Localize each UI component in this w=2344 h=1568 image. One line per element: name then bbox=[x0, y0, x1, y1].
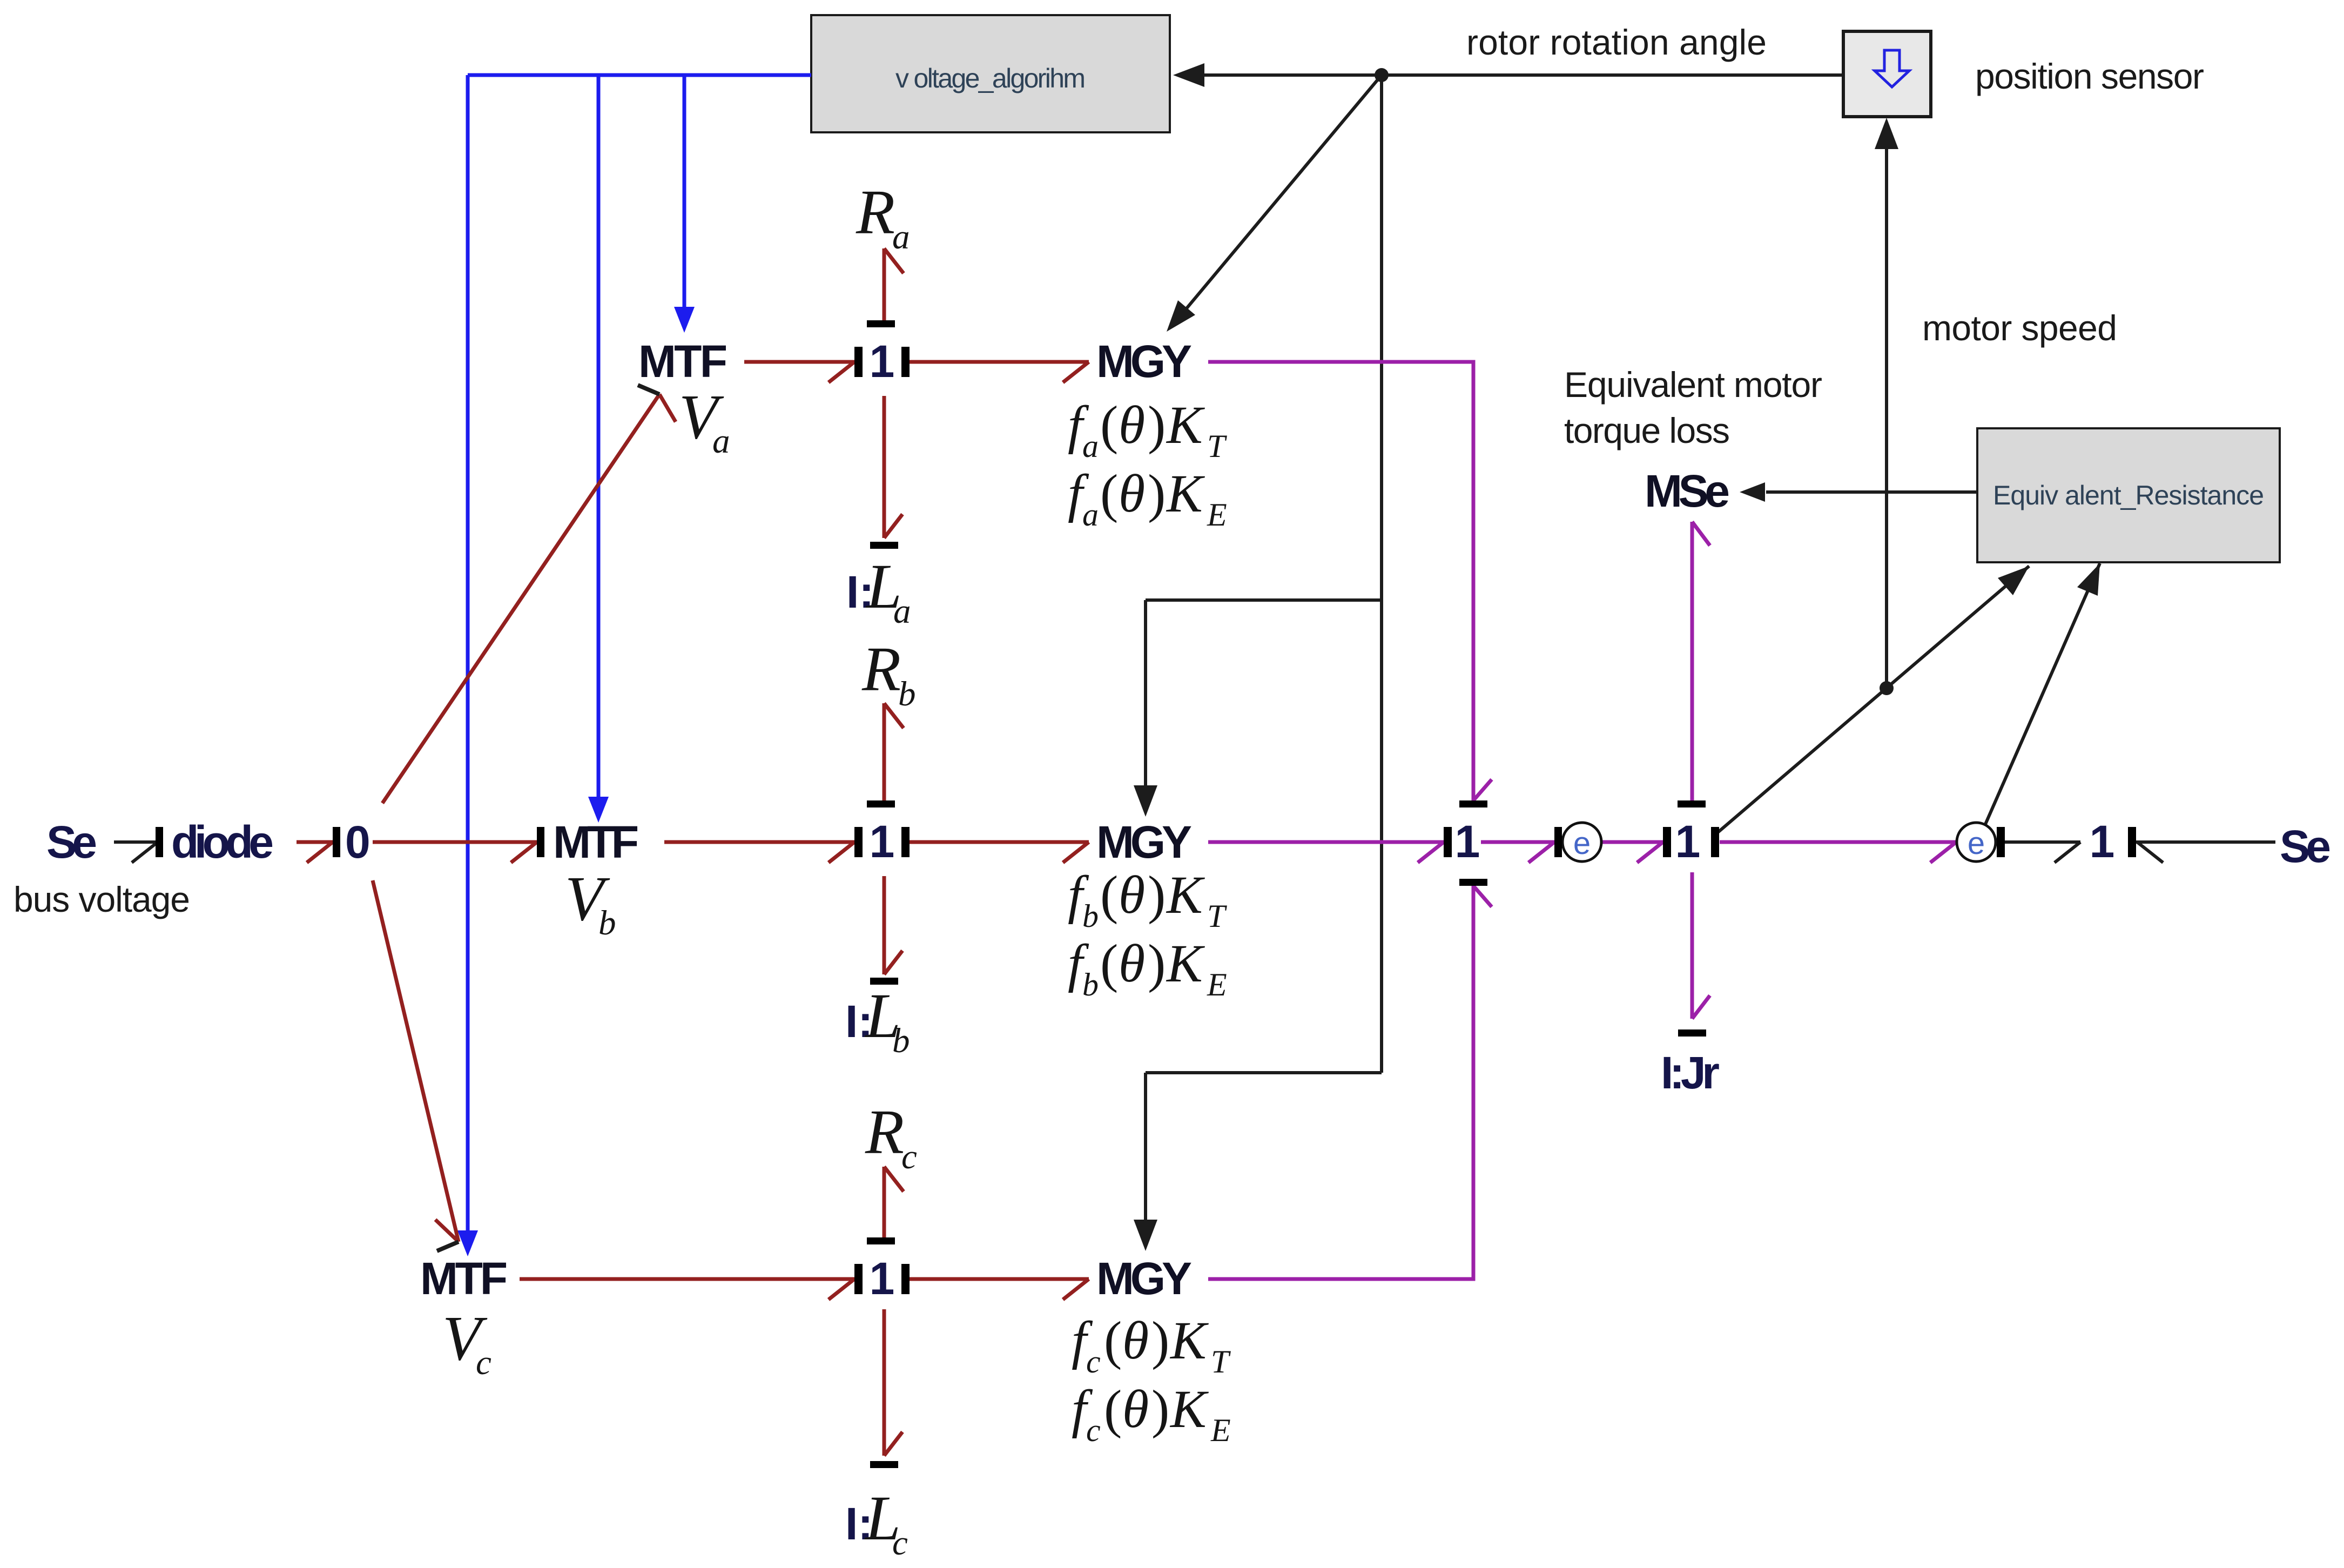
svg-text:MGY: MGY bbox=[1096, 336, 1192, 387]
svg-text:E: E bbox=[1207, 497, 1227, 533]
svg-text:0: 0 bbox=[345, 817, 371, 867]
svg-text:b: b bbox=[598, 904, 616, 943]
svg-text:motor speed: motor speed bbox=[1922, 308, 2117, 348]
svg-text:Equiv alent_Resistance: Equiv alent_Resistance bbox=[1993, 480, 2264, 510]
svg-text:T: T bbox=[1207, 428, 1227, 464]
svg-text:b: b bbox=[1082, 898, 1099, 934]
svg-text:(: ( bbox=[1104, 1379, 1122, 1439]
svg-text:): ) bbox=[1151, 1379, 1169, 1439]
svg-text:θ: θ bbox=[1119, 395, 1145, 455]
svg-text:(: ( bbox=[1100, 395, 1118, 455]
svg-text:E: E bbox=[1207, 967, 1227, 1002]
svg-text:T: T bbox=[1211, 1344, 1231, 1379]
svg-text:1: 1 bbox=[2090, 816, 2115, 867]
svg-text:K: K bbox=[1166, 395, 1205, 455]
svg-text:Se: Se bbox=[2280, 821, 2331, 872]
svg-text:diode: diode bbox=[171, 817, 274, 867]
svg-text:R: R bbox=[861, 634, 901, 704]
svg-text:): ) bbox=[1148, 933, 1166, 993]
svg-text:e: e bbox=[1573, 826, 1591, 861]
svg-text:): ) bbox=[1148, 395, 1166, 455]
svg-text:θ: θ bbox=[1122, 1310, 1149, 1370]
svg-text:MTF: MTF bbox=[420, 1253, 508, 1304]
svg-text:c: c bbox=[892, 1524, 908, 1563]
svg-text:(: ( bbox=[1100, 933, 1118, 993]
svg-text:a: a bbox=[892, 218, 910, 257]
svg-text:K: K bbox=[1169, 1310, 1209, 1370]
svg-text:a: a bbox=[1082, 497, 1099, 533]
svg-text:θ: θ bbox=[1122, 1379, 1149, 1439]
svg-text:MGY: MGY bbox=[1096, 1253, 1192, 1304]
svg-text:θ: θ bbox=[1119, 933, 1145, 993]
svg-text:1: 1 bbox=[870, 816, 895, 867]
svg-text:R: R bbox=[865, 1096, 904, 1167]
svg-text:): ) bbox=[1148, 865, 1166, 925]
svg-text:T: T bbox=[1207, 898, 1227, 934]
svg-text:b: b bbox=[892, 1021, 910, 1060]
svg-text:): ) bbox=[1148, 463, 1166, 523]
svg-text:K: K bbox=[1166, 933, 1205, 993]
svg-text:(: ( bbox=[1100, 463, 1118, 523]
svg-text:K: K bbox=[1169, 1379, 1209, 1439]
svg-text:Equivalent motor: Equivalent motor bbox=[1564, 365, 1822, 405]
svg-text:θ: θ bbox=[1119, 865, 1145, 925]
svg-text:I:Jr: I:Jr bbox=[1661, 1047, 1720, 1098]
svg-text:MTF: MTF bbox=[553, 817, 639, 867]
svg-text:e: e bbox=[1968, 826, 1985, 861]
svg-text:MSe: MSe bbox=[1645, 466, 1730, 516]
svg-text:a: a bbox=[1082, 428, 1099, 464]
svg-text:b: b bbox=[898, 675, 916, 714]
svg-text:K: K bbox=[1166, 865, 1205, 925]
svg-text:1: 1 bbox=[1675, 816, 1701, 867]
svg-text:(: ( bbox=[1104, 1310, 1122, 1370]
svg-text:(: ( bbox=[1100, 865, 1118, 925]
svg-text:a: a bbox=[712, 422, 730, 461]
svg-text:θ: θ bbox=[1119, 463, 1145, 523]
svg-text:MGY: MGY bbox=[1096, 817, 1192, 867]
svg-text:c: c bbox=[1086, 1412, 1101, 1448]
svg-text:1: 1 bbox=[870, 1253, 895, 1304]
svg-text:R: R bbox=[856, 177, 895, 247]
svg-text:c: c bbox=[901, 1138, 917, 1176]
svg-text:1: 1 bbox=[870, 336, 895, 387]
svg-text:): ) bbox=[1151, 1310, 1169, 1370]
svg-text:E: E bbox=[1210, 1412, 1231, 1448]
svg-text:MTF: MTF bbox=[638, 336, 728, 387]
svg-text:Se: Se bbox=[46, 817, 97, 867]
svg-text:c: c bbox=[1086, 1344, 1101, 1379]
svg-text:bus voltage: bus voltage bbox=[14, 879, 190, 919]
svg-text:v oltage_algorihm: v oltage_algorihm bbox=[895, 63, 1086, 93]
svg-text:b: b bbox=[1082, 967, 1099, 1002]
svg-text:position sensor: position sensor bbox=[1975, 56, 2204, 96]
svg-text:c: c bbox=[476, 1343, 491, 1382]
svg-text:a: a bbox=[893, 592, 911, 631]
svg-text:rotor rotation angle: rotor rotation angle bbox=[1466, 22, 1767, 62]
svg-text:1: 1 bbox=[1455, 816, 1480, 867]
svg-text:K: K bbox=[1166, 463, 1205, 523]
svg-text:torque loss: torque loss bbox=[1564, 410, 1730, 450]
